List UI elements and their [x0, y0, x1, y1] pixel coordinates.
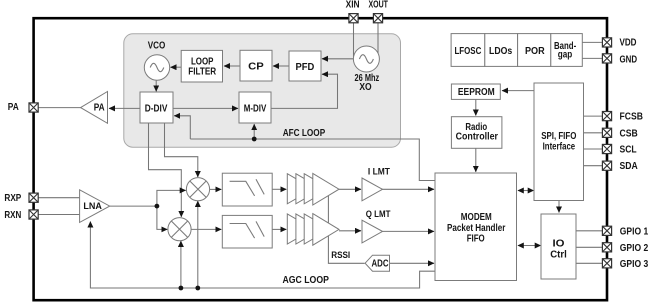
- wire PA amp to PA pad: [38, 107, 80, 109]
- block PFD: [289, 51, 321, 81]
- svg-text:I LMT: I LMT: [368, 167, 390, 177]
- lower filter symbol: [230, 221, 265, 238]
- pad VDD: [602, 38, 611, 47]
- svg-text:VDD: VDD: [620, 38, 637, 49]
- svg-text:SDA: SDA: [620, 161, 639, 172]
- wire D-DIV LO to lower mixer: [149, 124, 182, 217]
- wire node to lower mixer: [157, 206, 167, 229]
- double arrowheads MODEM-SPI: [517, 188, 534, 194]
- wire AGC to lower mixer: [180, 241, 182, 288]
- svg-text:XO: XO: [359, 82, 371, 93]
- wire M-DIV to PFD: [271, 74, 338, 108]
- pad GND: [602, 54, 611, 63]
- block LDOs: [485, 34, 518, 67]
- svg-text:Q LMT: Q LMT: [366, 209, 391, 219]
- svg-text:Controller: Controller: [456, 132, 498, 143]
- svg-text:RXP: RXP: [4, 193, 21, 204]
- svg-text:AGC LOOP: AGC LOOP: [283, 275, 330, 286]
- wire SPI to EEPROM: [502, 90, 534, 92]
- wire XOUT to XO: [377, 23, 379, 54]
- svg-text:GPIO 2: GPIO 2: [620, 243, 649, 254]
- pad RXN: [29, 210, 38, 219]
- lower limiter chain: [287, 214, 313, 244]
- wire AGC to upper mixer: [197, 201, 199, 288]
- wire Band-gap to GND: [582, 57, 602, 59]
- wire RXN to LNA: [38, 214, 79, 216]
- svg-text:Ctrl: Ctrl: [550, 249, 567, 260]
- wire XO to PFD: [322, 58, 354, 60]
- crystal oscillator XO: [353, 46, 379, 72]
- node LNA output junction: [155, 204, 160, 209]
- AFC loop shaded region: [124, 34, 401, 147]
- block lower filter: [222, 215, 272, 248]
- svg-text:XIN: XIN: [346, 0, 360, 11]
- svg-text:CP: CP: [248, 62, 264, 73]
- wire SPI to IO Ctrl: [558, 201, 560, 213]
- block CP: [240, 50, 272, 81]
- wire MODEM to SPI double arrow: [518, 190, 532, 192]
- svg-text:VCO: VCO: [148, 40, 166, 51]
- XO sine symbol: [359, 55, 373, 64]
- svg-text:ADC: ADC: [372, 259, 389, 270]
- wire AFC feedback into M-DIV: [253, 124, 255, 139]
- svg-text:GND: GND: [620, 54, 638, 65]
- pad SDA: [602, 161, 611, 170]
- svg-text:FCSB: FCSB: [620, 112, 643, 123]
- wire I LMT to MODEM: [383, 188, 435, 190]
- svg-text:RSSI: RSSI: [331, 250, 350, 260]
- wire IO Ctrl to GPIO 2: [576, 246, 603, 248]
- wire lower filter to limiter chain: [272, 228, 286, 230]
- pad GPIO3: [602, 259, 611, 268]
- wire SPI to SCL: [584, 148, 603, 150]
- wire AFC feedback to MODEM: [190, 139, 434, 181]
- wire RXP to LNA: [38, 197, 79, 199]
- wire SPI to SDA: [584, 165, 603, 167]
- svg-text:SCL: SCL: [620, 145, 637, 156]
- wire D-DIV to M-DIV: [173, 107, 238, 109]
- svg-text:PA: PA: [8, 102, 20, 113]
- wire upper mixer to filter: [209, 188, 221, 190]
- svg-text:M-DIV: M-DIV: [244, 103, 267, 114]
- wire IO Ctrl to GPIO 3: [576, 262, 603, 264]
- node AFC feedback junction: [252, 137, 257, 142]
- svg-text:POR: POR: [525, 46, 545, 57]
- svg-text:D-DIV: D-DIV: [145, 103, 168, 114]
- wire LOOP FILTER to VCO: [171, 66, 182, 68]
- wire D-DIV to PA amp: [109, 107, 140, 109]
- svg-text:MODEM: MODEM: [461, 212, 492, 223]
- pad RXP: [29, 193, 38, 202]
- limiter Q LMT: [362, 220, 383, 243]
- svg-text:PA: PA: [94, 103, 105, 114]
- mixer upper: [186, 178, 209, 201]
- wire AGC loop to LNA: [90, 222, 434, 289]
- svg-text:EEPROM: EEPROM: [458, 87, 495, 98]
- wire EEPROM to Radio Controller: [475, 99, 477, 115]
- svg-text:CSB: CSB: [620, 128, 638, 139]
- pad XIN: [349, 14, 358, 23]
- wire lower mixer to filter: [191, 228, 222, 230]
- pad GPIO1: [602, 226, 611, 235]
- block Radio Controller: [451, 117, 502, 149]
- svg-text:IO: IO: [553, 238, 565, 249]
- wire node to upper mixer: [157, 190, 186, 206]
- amplifier PA: [81, 92, 108, 124]
- block MODEM Packet Handler FIFO: [435, 173, 517, 281]
- wire MODEM to IO Ctrl double arrow: [518, 245, 539, 247]
- svg-text:AFC LOOP: AFC LOOP: [283, 128, 326, 139]
- svg-text:RXN: RXN: [4, 210, 21, 221]
- wire Q LMT to MODEM: [383, 230, 435, 232]
- wire chain to I LMT: [339, 188, 361, 190]
- block M-DIV: [239, 92, 271, 123]
- block Band-gap: [551, 34, 583, 67]
- svg-text:Interface: Interface: [543, 142, 576, 153]
- mixer lower X: [171, 221, 187, 237]
- wire D-DIV LO to upper mixer: [165, 124, 198, 178]
- wire Radio Controller to MODEM: [475, 148, 477, 172]
- svg-text:FILTER: FILTER: [188, 67, 216, 78]
- wire upper filter to limiter chain: [272, 188, 286, 190]
- upper limiter chain: [287, 174, 313, 204]
- wire RSSI tap to ADC: [328, 196, 364, 263]
- svg-text:PFD: PFD: [296, 62, 315, 73]
- block upper filter: [222, 173, 272, 206]
- limiter I LMT: [362, 178, 383, 201]
- svg-text:GPIO 1: GPIO 1: [620, 227, 649, 238]
- oscillator VCO: [144, 55, 169, 80]
- amplifier LNA: [80, 190, 110, 223]
- block LFOSC: [451, 34, 485, 67]
- block POR: [518, 34, 551, 67]
- wire CP to LOOP FILTER: [224, 65, 240, 67]
- wire IO Ctrl to GPIO 1: [576, 230, 603, 232]
- svg-text:SPI, FIFO: SPI, FIFO: [541, 131, 576, 142]
- svg-text:GPIO 3: GPIO 3: [620, 259, 649, 270]
- pad XOUT: [373, 14, 382, 23]
- pad PA: [29, 103, 38, 112]
- svg-text:LNA: LNA: [83, 201, 102, 211]
- converter ADC: [365, 255, 389, 271]
- node AGC lower mixer junction: [179, 286, 184, 291]
- mixer upper X: [190, 181, 206, 197]
- pad SCL: [602, 144, 611, 153]
- upper filter symbol: [230, 179, 265, 196]
- wire PFD to CP: [273, 65, 289, 67]
- svg-text:FIFO: FIFO: [467, 233, 485, 244]
- block EEPROM: [451, 84, 500, 99]
- mixer lower: [168, 218, 191, 241]
- pad CSB: [602, 128, 611, 137]
- pad GPIO2: [602, 243, 611, 252]
- block LOOP FILTER: [181, 50, 222, 82]
- wire AFC feedback into D-DIV: [174, 116, 190, 139]
- wire XIN to XO: [353, 23, 355, 57]
- wire chain to Q LMT: [339, 230, 361, 232]
- wire SPI to CSB: [584, 132, 603, 134]
- block D-DIV: [140, 92, 173, 123]
- wire VCO to D-DIV: [155, 80, 157, 91]
- pad FCSB: [602, 112, 611, 121]
- svg-text:XOUT: XOUT: [368, 0, 388, 11]
- wire SPI to FCSB: [584, 115, 603, 117]
- double arrowheads MODEM-IO Ctrl: [517, 243, 541, 249]
- svg-text:LFOSC: LFOSC: [454, 46, 481, 57]
- svg-text:gap: gap: [558, 49, 573, 60]
- block SPI FIFO Interface: [534, 83, 584, 201]
- wire Band-gap to VDD: [582, 41, 602, 43]
- node AGC upper mixer junction: [195, 286, 200, 291]
- VCO sine symbol: [150, 63, 164, 71]
- block IO Ctrl: [541, 214, 576, 279]
- wire LNA output: [110, 205, 157, 207]
- wire ADC to MODEM: [390, 262, 435, 264]
- svg-text:LDOs: LDOs: [489, 46, 512, 57]
